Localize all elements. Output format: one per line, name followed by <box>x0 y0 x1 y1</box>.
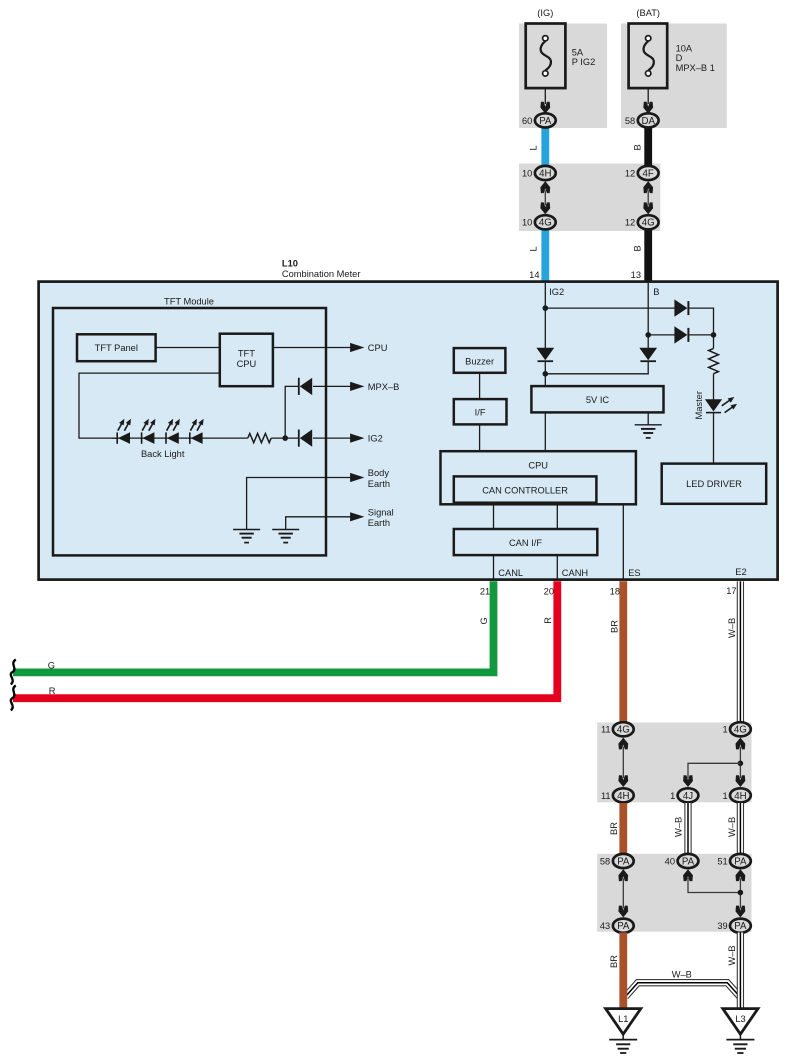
label Master <box>694 391 704 419</box>
svg-text:4J: 4J <box>683 791 693 802</box>
svg-text:20: 20 <box>544 586 554 596</box>
svg-text:I/F: I/F <box>475 408 486 418</box>
label G vertical <box>479 617 489 624</box>
svg-text:CANL: CANL <box>498 568 523 578</box>
node LED branch <box>711 332 717 338</box>
svg-text:17: 17 <box>726 586 736 596</box>
wire B (black) 4G to combination meter pin 13 <box>644 228 652 282</box>
connector 4F pin 12 <box>625 166 659 180</box>
LED driver U5 box <box>662 464 767 504</box>
diode D4 (B rail) <box>639 348 657 362</box>
label 5V IC <box>586 395 610 405</box>
svg-text:R: R <box>49 686 56 696</box>
node backlight junction <box>282 435 288 441</box>
arrow IG2 <box>350 434 364 443</box>
svg-text:L10: L10 <box>282 259 298 269</box>
svg-text:4G: 4G <box>734 725 747 736</box>
label R vertical <box>543 617 553 624</box>
power block background (BAT fuse area) <box>621 24 727 129</box>
pin E2 name <box>735 567 746 577</box>
label W-B (horizontal) <box>672 970 692 980</box>
CAN controller box <box>454 476 597 502</box>
fuse F1 element <box>541 36 551 77</box>
junction connector block 4H/4F-4G background <box>519 164 660 232</box>
node 5V rail <box>543 371 549 377</box>
wire TFT CPU to CPU arrow <box>273 347 351 349</box>
wire I/F to CPU <box>479 424 481 451</box>
wire L (blue) 4G to combination meter pin 14 <box>541 228 549 282</box>
diode D3 (IG2 rail) <box>536 348 554 362</box>
svg-text:CPU: CPU <box>237 359 257 369</box>
svg-text:W–B: W–B <box>672 970 692 980</box>
connector 4G pin 1 <box>723 722 751 736</box>
wire R (red) CANH <box>13 581 557 698</box>
ground body earth <box>233 530 260 543</box>
connector 4H pin 1 <box>723 788 751 802</box>
arrow CPU <box>350 343 364 352</box>
connector 4H pin 10 <box>522 166 556 180</box>
CAN I/F box <box>454 529 598 555</box>
wire signal earth <box>286 517 351 530</box>
connector PA pin 58 <box>600 854 634 868</box>
LED backlight 2 <box>142 419 156 444</box>
wire L (blue) PA to 4H <box>541 126 549 167</box>
wire BR 4H to PA <box>619 803 627 856</box>
arrows 4G-4H right <box>736 738 746 787</box>
svg-text:B: B <box>633 245 643 251</box>
svg-text:12: 12 <box>625 218 635 228</box>
pin CANL name <box>498 568 523 578</box>
label TFT Panel <box>95 343 138 353</box>
svg-text:12: 12 <box>625 168 635 178</box>
LED backlight 4 <box>190 419 204 444</box>
label R <box>49 686 56 696</box>
connector PA pin 40 <box>665 854 699 868</box>
svg-text:(IG): (IG) <box>537 8 553 18</box>
label G <box>48 660 55 670</box>
wire ES pin <box>622 504 624 579</box>
ground signal earth <box>272 530 299 543</box>
connector 4G pin 12 <box>625 215 659 229</box>
wire BR (brown) ES to 4G <box>619 581 627 724</box>
ground point L3 <box>723 1009 758 1035</box>
label TFT CPU <box>237 349 257 370</box>
TFT panel U3 box <box>77 334 156 361</box>
node (BAT) <box>636 8 660 18</box>
fuse F2 value label <box>676 44 715 73</box>
node (IG) <box>537 8 553 18</box>
continuation brace R <box>11 686 16 711</box>
svg-text:4G: 4G <box>617 725 630 736</box>
svg-text:B: B <box>653 287 659 297</box>
svg-text:MPX–B: MPX–B <box>368 382 400 392</box>
wire 5V IC to ground <box>647 412 649 424</box>
connector PA pin 43 <box>600 919 634 933</box>
svg-text:11: 11 <box>601 725 611 735</box>
wire diode D3 to node <box>544 362 546 387</box>
label W-B (E2) <box>727 618 737 638</box>
label I/F <box>475 408 486 418</box>
fuse F1 5A P IG2 box <box>526 24 566 89</box>
wire W-B bent to L1 <box>626 983 741 998</box>
label TFT Module <box>164 297 214 307</box>
node 4G branch <box>738 761 744 767</box>
wire G (green) CANL <box>13 581 494 672</box>
label Buzzer <box>465 356 494 366</box>
label L <box>529 145 539 150</box>
pin 17 number <box>726 586 736 596</box>
svg-text:Buzzer: Buzzer <box>465 356 494 366</box>
svg-text:4G: 4G <box>642 218 655 229</box>
svg-text:1: 1 <box>723 791 728 801</box>
svg-text:R: R <box>543 617 553 624</box>
svg-text:L: L <box>529 246 539 251</box>
svg-text:Back Light: Back Light <box>141 449 185 459</box>
svg-text:W–B: W–B <box>727 618 737 638</box>
svg-text:TFT Panel: TFT Panel <box>95 343 138 353</box>
pin 14 name IG2 <box>549 287 564 297</box>
svg-text:BR: BR <box>609 822 619 835</box>
svg-text:DA: DA <box>641 116 655 127</box>
LED backlight 3 <box>166 419 180 444</box>
wire W-B E2 to 4G <box>737 581 744 724</box>
diode D5 (MPX-B) <box>299 378 312 395</box>
label BR 2 <box>609 822 619 835</box>
wire CAN controller to CAN I/F left <box>493 503 495 529</box>
pin 14 label <box>529 270 539 280</box>
svg-text:CANH: CANH <box>562 568 588 578</box>
label BR 3 <box>609 955 619 968</box>
wire TFT CPU to back light <box>79 373 220 438</box>
wire branch to 4J <box>688 763 740 778</box>
wire TFT panel to TFT CPU <box>156 347 220 349</box>
svg-text:PA: PA <box>539 116 552 127</box>
wire fuse F2 to connector DA <box>647 88 649 104</box>
junction connector block 4G-4H/4J background <box>597 723 751 803</box>
label L 2 <box>529 246 539 251</box>
TFT module box <box>53 308 326 555</box>
label LED DRIVER <box>686 479 742 489</box>
arrow into connector DA <box>643 102 653 114</box>
connector block PA-PA background <box>597 854 751 932</box>
label CAN I/F <box>509 538 542 548</box>
svg-text:40: 40 <box>665 856 675 866</box>
connector 4G pin 11 <box>601 722 634 736</box>
wire buzzer to I/F <box>479 373 481 399</box>
wire IG2 to diode D1 <box>545 307 675 309</box>
svg-text:4G: 4G <box>539 218 552 229</box>
svg-text:39: 39 <box>717 921 727 931</box>
node IG2 branch <box>543 305 549 311</box>
ground point L1 <box>606 1009 641 1035</box>
svg-text:ES: ES <box>628 568 640 578</box>
svg-text:5A: 5A <box>572 48 584 58</box>
svg-text:CAN CONTROLLER: CAN CONTROLLER <box>482 486 568 496</box>
svg-text:51: 51 <box>717 856 727 866</box>
wire W-B PA39 to L3 <box>737 933 744 1009</box>
label BR <box>609 620 619 633</box>
svg-text:60: 60 <box>522 116 532 126</box>
svg-text:LED DRIVER: LED DRIVER <box>686 479 742 489</box>
connector DA pin 58 <box>625 113 659 127</box>
svg-text:MPX–B 1: MPX–B 1 <box>676 63 715 73</box>
label CAN CONTROLLER <box>482 486 568 496</box>
label CPU <box>528 460 548 470</box>
arrow into 40 PA <box>683 869 693 881</box>
arrow Signal Earth <box>350 512 364 521</box>
wire diode D1 to LED branch <box>689 308 713 348</box>
svg-text:43: 43 <box>600 921 610 931</box>
svg-text:E2: E2 <box>735 567 746 577</box>
svg-text:L: L <box>529 145 539 150</box>
svg-text:CPU: CPU <box>528 460 548 470</box>
svg-text:L3: L3 <box>735 1014 745 1024</box>
svg-text:TFT Module: TFT Module <box>164 297 214 307</box>
ground earth L3 <box>726 1040 754 1053</box>
svg-text:PA: PA <box>734 856 747 867</box>
diode D1 <box>674 299 688 316</box>
LED master <box>705 397 737 413</box>
svg-text:IG2: IG2 <box>368 434 383 444</box>
arrow into 4J <box>683 775 693 787</box>
label W-B (L3) <box>727 945 737 965</box>
label B <box>633 144 643 150</box>
wire node to MPX-B diode <box>285 386 299 438</box>
wire IG2 internal <box>544 283 546 348</box>
node PA branch <box>738 890 744 896</box>
svg-text:W–B: W–B <box>673 817 683 837</box>
fuse F2 element <box>644 36 654 77</box>
pin 13 label <box>631 270 641 280</box>
label L10 Combination Meter <box>282 259 361 280</box>
wire CANH pin <box>556 555 558 580</box>
arrows junction connector 4F-4G <box>643 181 653 214</box>
wire L1 to earth <box>622 1034 624 1039</box>
arrows junction connector 4H-4G <box>540 181 550 214</box>
wire diode D6 to IG2 arrow <box>313 437 351 439</box>
svg-text:Body: Body <box>368 468 390 478</box>
svg-text:21: 21 <box>480 586 490 596</box>
svg-text:P IG2: P IG2 <box>572 57 596 67</box>
connector 4H pin 11 <box>601 788 634 802</box>
node B branch <box>645 332 651 338</box>
wire B (black) DA to 4F <box>644 126 652 167</box>
arrow into connector PA <box>540 102 550 114</box>
svg-text:Signal: Signal <box>368 508 394 518</box>
pin 21 number <box>480 586 490 596</box>
svg-text:1: 1 <box>723 725 728 735</box>
wire BR PA43 to L1 <box>619 933 627 1009</box>
svg-text:L1: L1 <box>618 1014 628 1024</box>
wire diode D2 to LED branch <box>689 334 713 336</box>
svg-text:PA: PA <box>682 856 695 867</box>
pin 13 name B <box>653 287 659 297</box>
connector PA pin 60 <box>522 113 556 127</box>
svg-text:4H: 4H <box>734 791 746 802</box>
pin 20 number <box>544 586 554 596</box>
svg-text:4H: 4H <box>617 791 629 802</box>
svg-text:TFT: TFT <box>238 349 255 359</box>
wire diode D5 to MPX-B arrow <box>313 385 351 387</box>
ground 5V IC <box>635 425 662 438</box>
svg-text:CAN I/F: CAN I/F <box>509 538 542 548</box>
label MPX-B <box>368 382 400 392</box>
I/F box <box>454 399 507 424</box>
label W-B (4J) <box>673 817 683 837</box>
wire W-B 4J to PA <box>684 803 691 856</box>
svg-text:BR: BR <box>609 620 619 633</box>
label Back Light <box>141 449 185 459</box>
svg-text:58: 58 <box>625 116 635 126</box>
LED backlight 1 <box>117 419 131 444</box>
svg-text:14: 14 <box>529 270 539 280</box>
label B 2 <box>633 245 643 251</box>
arrow Body Earth <box>350 473 364 482</box>
connector 4G pin 10 <box>522 215 556 229</box>
arrows PA-PA left <box>618 869 628 917</box>
arrows 4G-4H left <box>618 738 628 787</box>
label Body Earth <box>368 468 390 489</box>
arrow MPX-B <box>350 382 364 391</box>
buzzer box <box>454 348 506 373</box>
svg-text:D: D <box>676 53 683 63</box>
wire diode D4 to rail <box>545 362 648 374</box>
ground earth L1 <box>609 1040 637 1053</box>
wire B internal <box>647 283 649 348</box>
svg-text:B: B <box>633 144 643 150</box>
fuse F2 10A D MPX-B 1 box <box>629 24 668 89</box>
fuse F1 value label <box>572 48 596 68</box>
resistor R (back light) <box>248 434 271 443</box>
label W-B (4H) <box>727 817 737 837</box>
diode D2 <box>674 326 688 343</box>
connector PA pin 51 <box>717 854 750 868</box>
power block background (IG fuse area) <box>519 24 607 129</box>
pin ES name <box>628 568 640 578</box>
svg-text:10A: 10A <box>676 44 693 54</box>
svg-text:Combination Meter: Combination Meter <box>282 269 361 279</box>
resistor R2 (master LED) <box>709 348 719 373</box>
wire L3 to earth <box>739 1034 741 1039</box>
wire body earth <box>247 478 351 530</box>
svg-text:Earth: Earth <box>368 479 390 489</box>
label IG2 (tft) <box>368 434 383 444</box>
continuation brace G <box>11 660 16 685</box>
combination meter L10 box <box>39 282 778 580</box>
svg-text:CPU: CPU <box>368 343 388 353</box>
pin 18 number <box>610 586 620 596</box>
svg-text:4H: 4H <box>539 168 551 179</box>
connector 4J pin 1 <box>670 788 698 802</box>
svg-text:1: 1 <box>670 791 675 801</box>
svg-text:(BAT): (BAT) <box>636 8 660 18</box>
wire resistor R2 to LED <box>713 374 715 400</box>
wire fuse F1 to connector PA <box>544 88 546 104</box>
pin CANH name <box>562 568 588 578</box>
svg-text:G: G <box>48 660 55 670</box>
svg-text:G: G <box>479 617 489 624</box>
connector PA pin 39 <box>717 919 750 933</box>
svg-text:Master: Master <box>694 391 704 419</box>
svg-text:11: 11 <box>601 791 611 801</box>
wire CANL pin <box>493 555 495 580</box>
wire 40PA branch <box>688 878 740 893</box>
wire 5V IC to CPU <box>544 412 546 451</box>
wire B to diode D2 <box>648 334 675 336</box>
svg-text:10: 10 <box>522 168 532 178</box>
arrows PA-PA right <box>736 869 746 917</box>
wire W-B 4H to PA <box>737 803 744 856</box>
svg-text:PA: PA <box>617 856 630 867</box>
svg-text:18: 18 <box>610 586 620 596</box>
svg-text:4F: 4F <box>643 168 654 179</box>
svg-text:5V IC: 5V IC <box>586 395 610 405</box>
svg-text:PA: PA <box>617 921 630 932</box>
svg-text:W–B: W–B <box>727 817 737 837</box>
CPU U7 box <box>441 451 636 504</box>
label CPU (tft output) <box>368 343 388 353</box>
svg-text:58: 58 <box>600 856 610 866</box>
TFT CPU U4 box <box>220 334 273 387</box>
svg-text:13: 13 <box>631 270 641 280</box>
wire resistor to node <box>271 437 299 439</box>
svg-text:BR: BR <box>609 955 619 968</box>
5V IC U6 box <box>531 386 663 412</box>
svg-text:W–B: W–B <box>727 945 737 965</box>
diode D6 (IG2) <box>299 429 312 446</box>
back light wire <box>112 437 248 439</box>
svg-text:Earth: Earth <box>368 518 390 528</box>
label Signal Earth <box>368 508 394 529</box>
svg-text:10: 10 <box>522 218 532 228</box>
wire CAN controller to CAN I/F right <box>556 503 558 529</box>
svg-text:IG2: IG2 <box>549 287 564 297</box>
wire LED to LED driver <box>713 413 715 464</box>
svg-text:PA: PA <box>734 921 747 932</box>
